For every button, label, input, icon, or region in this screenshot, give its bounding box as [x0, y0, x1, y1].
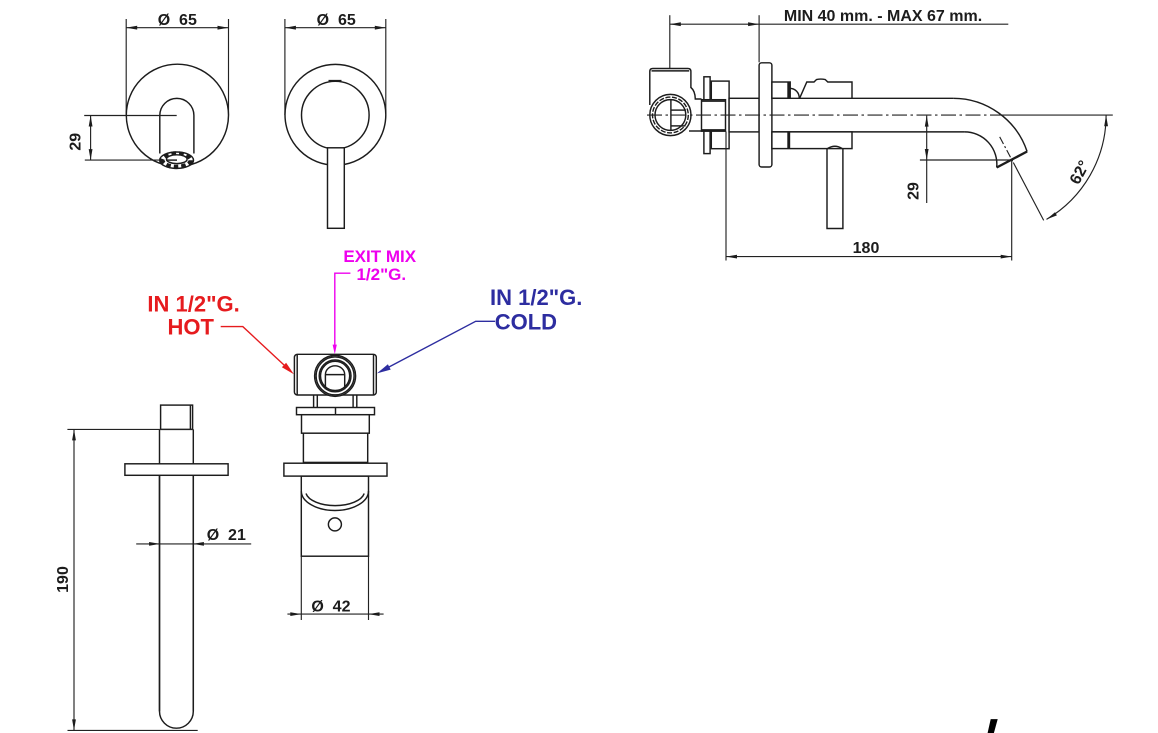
svg-text:HOT: HOT — [167, 314, 214, 339]
recess arcs — [301, 491, 368, 510]
wall flange — [759, 63, 772, 167]
svg-text:MIN 40 mm. - MAX 67 mm.: MIN 40 mm. - MAX 67 mm. — [784, 8, 982, 25]
svg-text:1/2"G.: 1/2"G. — [356, 265, 406, 284]
tip axis — [1000, 137, 1014, 163]
svg-text:Ø 65: Ø 65 — [317, 12, 356, 29]
aerator — [160, 152, 194, 168]
spout curves — [953, 98, 1027, 151]
cylinder 2 — [303, 433, 367, 462]
svg-text:Ø 42: Ø 42 — [311, 598, 350, 615]
valve body block — [294, 354, 376, 395]
cylinder 1 — [302, 415, 370, 434]
elbow body — [650, 69, 691, 106]
outer plate circle — [285, 64, 386, 165]
upper body with dome — [800, 79, 852, 98]
centerline — [647, 114, 1005, 116]
dim Ø65 ext lines — [125, 19, 127, 115]
washer — [297, 408, 375, 415]
svg-text:Ø 21: Ø 21 — [207, 527, 246, 544]
shoulder taper top — [691, 88, 702, 100]
spout face — [997, 152, 1027, 168]
nut — [702, 100, 726, 132]
bottom-right logo mark — [988, 719, 998, 733]
svg-text:IN 1/2"G.: IN 1/2"G. — [147, 292, 239, 317]
svg-text:180: 180 — [853, 240, 880, 257]
svg-text:IN 1/2"G.: IN 1/2"G. — [490, 285, 582, 310]
spout tube bottom line — [772, 131, 965, 133]
dim Ø65 line — [285, 27, 386, 29]
text underline — [759, 23, 1008, 25]
lower body — [772, 132, 852, 149]
pipe bottom to nut — [689, 130, 702, 132]
dim Ø65 ext lines — [284, 19, 286, 115]
dim Ø65 line — [126, 27, 228, 29]
dim 190 ext lines — [67, 428, 193, 430]
svg-text:EXIT MIX: EXIT MIX — [343, 247, 416, 266]
COLD leader — [387, 321, 496, 368]
inlet port circles — [650, 94, 691, 135]
threaded section — [711, 81, 729, 149]
handle — [328, 148, 345, 229]
angle arc — [1047, 115, 1107, 219]
svg-text:COLD: COLD — [495, 309, 557, 334]
MIN/MAX dim line — [670, 23, 759, 25]
svg-text:29: 29 — [68, 133, 85, 151]
dim 29 right ext — [920, 159, 1012, 161]
tube — [160, 429, 194, 728]
flange — [125, 464, 228, 476]
stub — [161, 405, 193, 429]
spindle — [325, 366, 344, 389]
flange — [284, 463, 387, 476]
notch at top — [329, 80, 342, 82]
handle shoulder arc — [828, 146, 843, 148]
spout tube top line — [772, 97, 953, 99]
mounting plate strip — [704, 77, 710, 154]
inner circle — [302, 81, 370, 149]
pipe section to flange — [729, 98, 759, 132]
dim Ø21 — [136, 543, 251, 545]
port rings — [315, 355, 356, 396]
HOT leader — [221, 327, 286, 367]
dim 29 line — [90, 116, 92, 161]
lower cylinder — [301, 476, 368, 556]
fillet arc — [790, 88, 799, 98]
dim 29 ext lines — [84, 115, 177, 117]
svg-text:190: 190 — [55, 566, 72, 593]
dim 190 line — [73, 429, 75, 730]
handle — [827, 149, 843, 229]
upper strip behind collar — [772, 82, 790, 98]
EXIT MIX leader — [335, 273, 351, 345]
wall plate circle — [126, 64, 228, 166]
MIN/MAX ext lines — [669, 15, 671, 69]
dim Ø42 ext — [300, 556, 302, 620]
screw hole — [328, 518, 341, 531]
svg-text:29: 29 — [906, 182, 923, 200]
dim 180 — [725, 132, 727, 261]
svg-text:Ø 65: Ø 65 — [158, 12, 197, 29]
spout tube — [160, 98, 194, 153]
neck — [313, 395, 315, 408]
